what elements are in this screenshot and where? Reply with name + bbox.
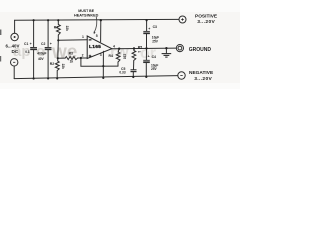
ground symbol bars: [162, 54, 172, 58]
svg-text:C3: C3: [153, 25, 157, 29]
svg-text:NEGATIVE: NEGATIVE: [189, 70, 214, 76]
terminal ground output: [176, 45, 183, 52]
svg-text:L165: L165: [89, 44, 101, 50]
svg-text:25V: 25V: [151, 67, 158, 71]
svg-text:GROUND: GROUND: [189, 47, 212, 53]
wire bottom rail: [14, 76, 178, 79]
svg-text:2: 2: [82, 53, 84, 57]
wire feedback node down and right to R4 bottom: [81, 58, 118, 66]
wire output rail: [112, 47, 176, 50]
svg-text:+: +: [148, 27, 150, 31]
svg-text:C1: C1: [24, 42, 28, 46]
svg-text:1: 1: [82, 35, 84, 39]
svg-text:HEATSINKED: HEATSINKED: [74, 13, 99, 17]
svg-text:3: 3: [100, 53, 102, 57]
node brail/C5: [132, 76, 134, 78]
svg-text:0.33: 0.33: [119, 71, 125, 75]
svg-text:220: 220: [123, 54, 127, 60]
resistor R1 zigzag: [57, 25, 61, 36]
resistor R4 zigzag: [116, 52, 120, 62]
resistor R5 zigzag: [132, 51, 136, 63]
svg-text:R3: R3: [69, 52, 73, 56]
resistor R2 zigzag: [55, 61, 59, 71]
wire node A to inverting input: [58, 39, 87, 42]
svg-text:R5: R5: [138, 46, 142, 50]
node rail/pin5: [100, 19, 102, 21]
resistor R1 leads: [57, 20, 59, 40]
svg-text:+: +: [30, 42, 32, 46]
capacitor C3 leads: [146, 20, 148, 48]
junction dots: [33, 19, 168, 80]
svg-text:1: 1: [137, 51, 141, 53]
wire pin3 to bottom rail: [102, 51, 104, 78]
capacitor C3 plates: [143, 31, 150, 33]
capacitor C1 leads: [33, 20, 35, 78]
paper background: [0, 0, 240, 89]
capacitor C5 bottom lead: [132, 72, 134, 77]
terminal - input: [11, 59, 18, 66]
op-amp inverting mark: [89, 39, 92, 41]
node out/gnd: [165, 47, 167, 49]
svg-text:POSITIVE: POSITIVE: [195, 14, 218, 20]
watermark: [13, 42, 156, 63]
svg-text:3...20V: 3...20V: [194, 76, 212, 82]
svg-text:C2: C2: [41, 42, 45, 46]
capacitor C1 plates: [30, 47, 37, 49]
node rail/C2: [47, 19, 49, 21]
callout arrow: [94, 17, 97, 33]
scan edge artifact left: [0, 30, 1, 36]
wire negative input terminal drop: [13, 66, 15, 79]
svg-text:3...20V: 3...20V: [197, 19, 215, 25]
svg-text:22k: 22k: [61, 64, 65, 70]
node brail/R2: [56, 77, 58, 79]
ground symbol stem: [165, 48, 167, 53]
svg-text:R2: R2: [50, 62, 54, 66]
op-amp U1 triangle: [87, 36, 112, 59]
svg-text:we: we: [51, 42, 77, 63]
terminal positive output: [179, 16, 186, 23]
resistor R3 zigzag (horizontal): [65, 57, 77, 60]
node pin3/fb: [102, 65, 104, 67]
node rail/R1: [57, 19, 59, 21]
capacitor C5 plates: [131, 70, 137, 72]
node brail/C4: [145, 76, 147, 78]
capacitor C2 plates: [45, 47, 52, 49]
capacitor C4 leads: [145, 49, 147, 77]
svg-text:R1: R1: [54, 26, 58, 30]
resistor R5 leads: [133, 49, 136, 70]
terminal + input: [11, 33, 18, 40]
svg-text:C4: C4: [152, 55, 156, 59]
node A: [57, 39, 59, 41]
node brail/C1: [33, 77, 35, 79]
resistor R3 leads: [58, 57, 87, 59]
node feedback: [80, 57, 82, 59]
svg-text:DC: DC: [12, 49, 19, 54]
svg-text:5: 5: [96, 34, 98, 38]
svg-text:25V: 25V: [152, 40, 159, 44]
node rail/C1: [33, 19, 35, 21]
wire node A to node B: [57, 40, 60, 58]
node rail/C3: [146, 19, 148, 21]
node out/R4: [118, 48, 120, 50]
svg-text:4: 4: [113, 44, 115, 48]
svg-text:40V: 40V: [38, 57, 45, 61]
svg-text:1k: 1k: [70, 60, 74, 64]
op-amp non-inverting mark: [89, 55, 92, 58]
capacitor C4 plates: [143, 60, 150, 62]
svg-text:22k: 22k: [65, 26, 69, 32]
svg-text:400µF: 400µF: [37, 51, 46, 55]
resistor R2 leads: [56, 58, 59, 78]
svg-text:MUST BE: MUST BE: [78, 9, 94, 13]
svg-text:R4: R4: [109, 54, 113, 58]
wire top rail: [15, 18, 179, 21]
wire positive input terminal riser: [14, 20, 16, 33]
svg-text:+: +: [50, 42, 52, 46]
svg-text:0.1: 0.1: [25, 50, 30, 54]
terminal negative output: [178, 72, 185, 79]
node out/C3C4: [145, 47, 147, 49]
node B: [57, 57, 59, 59]
op-amp U1 pin5 supply wire: [100, 20, 102, 42]
svg-text:+: +: [148, 54, 150, 58]
node brail/pin3: [102, 77, 104, 79]
node brail/C2: [47, 77, 49, 79]
node out/R5: [133, 47, 135, 49]
capacitor C2 leads: [47, 20, 49, 78]
resistor R4 leads: [118, 49, 119, 66]
